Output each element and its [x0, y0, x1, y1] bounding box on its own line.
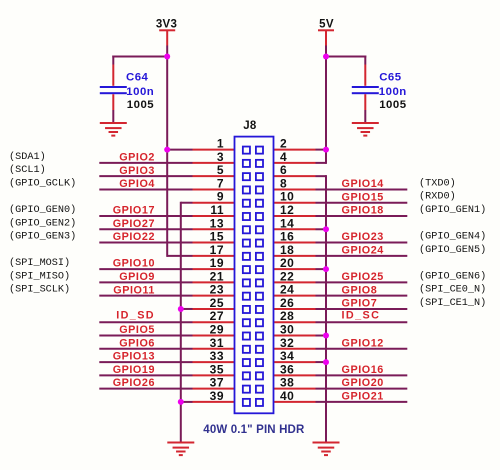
svg-text:20: 20 [280, 256, 294, 270]
svg-text:(SPI_SCLK): (SPI_SCLK) [9, 284, 70, 296]
svg-text:GPIO4: GPIO4 [119, 178, 155, 190]
svg-text:GPIO12: GPIO12 [342, 337, 384, 349]
svg-text:GPIO27: GPIO27 [113, 218, 155, 230]
svg-text:1: 1 [217, 137, 224, 151]
svg-text:C64: C64 [126, 72, 149, 84]
svg-text:(SPI_MOSI): (SPI_MOSI) [9, 257, 70, 269]
svg-text:25: 25 [210, 296, 224, 310]
svg-text:27: 27 [210, 309, 224, 323]
svg-text:36: 36 [280, 362, 294, 376]
svg-text:(GPIO_GEN2): (GPIO_GEN2) [9, 217, 76, 229]
svg-text:(GPIO_GEN1): (GPIO_GEN1) [419, 204, 486, 216]
svg-text:GPIO5: GPIO5 [119, 324, 155, 336]
svg-text:11: 11 [210, 203, 224, 217]
svg-text:(GPIO_GEN3): (GPIO_GEN3) [9, 231, 76, 243]
svg-text:C65: C65 [379, 72, 402, 84]
svg-text:(GPIO_GEN6): (GPIO_GEN6) [419, 270, 486, 282]
svg-text:10: 10 [280, 190, 294, 204]
svg-text:GPIO8: GPIO8 [342, 284, 378, 296]
svg-text:3: 3 [217, 150, 224, 164]
svg-text:ID_SD: ID_SD [116, 310, 155, 322]
svg-text:(SPI_MISO): (SPI_MISO) [9, 270, 70, 282]
svg-text:26: 26 [280, 296, 294, 310]
svg-text:GPIO2: GPIO2 [119, 151, 155, 163]
svg-text:34: 34 [280, 349, 294, 363]
svg-text:GPIO16: GPIO16 [342, 364, 384, 376]
svg-text:4: 4 [280, 150, 287, 164]
svg-text:22: 22 [280, 269, 294, 283]
svg-text:(GPIO_GEN4): (GPIO_GEN4) [419, 231, 486, 243]
svg-text:GPIO13: GPIO13 [113, 351, 155, 363]
svg-text:35: 35 [210, 362, 224, 376]
svg-text:(RXD0): (RXD0) [419, 191, 456, 203]
svg-text:GPIO7: GPIO7 [342, 298, 378, 310]
svg-text:GPIO25: GPIO25 [342, 271, 384, 283]
svg-text:(SDA1): (SDA1) [9, 151, 46, 163]
svg-text:40W 0.1" PIN HDR: 40W 0.1" PIN HDR [203, 424, 305, 436]
svg-text:ID_SC: ID_SC [342, 310, 381, 322]
svg-text:GPIO6: GPIO6 [119, 337, 155, 349]
svg-text:(GPIO_GEN0): (GPIO_GEN0) [9, 204, 76, 216]
svg-text:GPIO22: GPIO22 [113, 231, 155, 243]
svg-text:GPIO26: GPIO26 [113, 377, 155, 389]
svg-text:GPIO17: GPIO17 [113, 205, 155, 217]
svg-text:J8: J8 [243, 120, 257, 132]
svg-text:40: 40 [280, 389, 294, 403]
svg-text:5V: 5V [319, 18, 334, 30]
svg-text:(GPIO_GCLK): (GPIO_GCLK) [9, 177, 76, 189]
svg-text:18: 18 [280, 243, 294, 257]
svg-text:GPIO24: GPIO24 [342, 244, 384, 256]
svg-text:GPIO18: GPIO18 [342, 205, 384, 217]
svg-text:21: 21 [210, 269, 224, 283]
svg-text:100n: 100n [379, 86, 407, 98]
svg-text:7: 7 [217, 176, 224, 190]
svg-text:32: 32 [280, 336, 294, 350]
svg-text:14: 14 [280, 216, 294, 230]
svg-text:GPIO14: GPIO14 [342, 178, 384, 190]
svg-text:38: 38 [280, 376, 294, 390]
svg-text:16: 16 [280, 230, 294, 244]
svg-text:3V3: 3V3 [156, 18, 177, 30]
svg-text:12: 12 [280, 203, 294, 217]
svg-text:GPIO15: GPIO15 [342, 191, 384, 203]
svg-text:2: 2 [280, 137, 287, 151]
svg-text:1005: 1005 [379, 99, 407, 111]
svg-text:30: 30 [280, 323, 294, 337]
svg-text:GPIO11: GPIO11 [113, 284, 155, 296]
svg-text:(TXD0): (TXD0) [419, 177, 456, 189]
svg-text:1005: 1005 [127, 99, 155, 111]
svg-text:24: 24 [280, 283, 294, 297]
svg-text:9: 9 [217, 190, 224, 204]
svg-text:19: 19 [210, 256, 224, 270]
svg-text:39: 39 [210, 389, 224, 403]
svg-text:GPIO20: GPIO20 [342, 377, 384, 389]
svg-text:28: 28 [280, 309, 294, 323]
svg-text:(SPI_CE0_N): (SPI_CE0_N) [419, 284, 486, 296]
svg-text:23: 23 [210, 283, 224, 297]
svg-text:GPIO21: GPIO21 [342, 391, 384, 403]
svg-text:GPIO23: GPIO23 [342, 231, 384, 243]
svg-text:(GPIO_GEN5): (GPIO_GEN5) [419, 244, 486, 256]
svg-text:31: 31 [210, 336, 224, 350]
svg-text:8: 8 [280, 176, 287, 190]
svg-text:5: 5 [217, 163, 224, 177]
svg-text:13: 13 [210, 216, 224, 230]
svg-text:6: 6 [280, 163, 287, 177]
svg-text:GPIO10: GPIO10 [113, 258, 155, 270]
svg-text:17: 17 [210, 243, 224, 257]
svg-text:(SPI_CE1_N): (SPI_CE1_N) [419, 297, 486, 309]
svg-text:100n: 100n [126, 86, 154, 98]
svg-text:(SCL1): (SCL1) [9, 164, 46, 176]
svg-text:15: 15 [210, 230, 224, 244]
svg-text:29: 29 [210, 323, 224, 337]
svg-text:GPIO3: GPIO3 [119, 165, 155, 177]
svg-text:GPIO9: GPIO9 [119, 271, 155, 283]
svg-text:33: 33 [210, 349, 224, 363]
svg-text:37: 37 [210, 376, 224, 390]
svg-text:GPIO19: GPIO19 [113, 364, 155, 376]
